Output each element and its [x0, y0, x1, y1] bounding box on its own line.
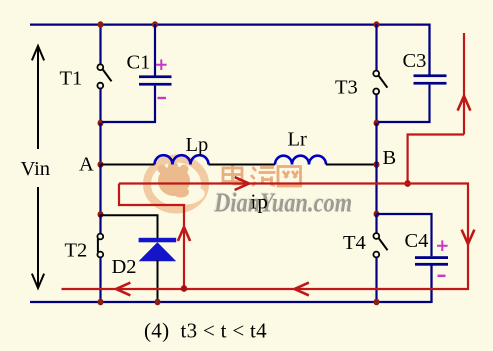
label A — [79, 153, 94, 175]
svg-text:A: A — [79, 153, 94, 175]
capacitor C1 — [139, 75, 172, 85]
inductor Lp — [155, 155, 209, 164]
junction top rail C1 — [152, 21, 158, 28]
C1 plus — [156, 59, 167, 70]
red junction dot right — [404, 180, 410, 187]
Vin down arrow — [32, 187, 44, 288]
wire C4 bottom lead — [430, 265, 432, 303]
svg-text:Vin: Vin — [21, 158, 51, 180]
wire T2 top — [99, 215, 101, 234]
junction T1-T2-C1 — [98, 120, 104, 127]
wire node A to T2 junction — [99, 165, 101, 215]
switch T1 — [97, 64, 111, 88]
svg-text:ip: ip — [251, 190, 269, 214]
watermark dianyuan.com text — [212, 185, 352, 217]
red arrow left bottom mid — [295, 283, 309, 296]
diode D2 triangle — [139, 242, 177, 261]
wire junction to node B — [375, 123, 377, 165]
wire T1 top — [99, 24, 101, 65]
junction T3-T4-C3 — [374, 120, 380, 127]
label D2 — [112, 256, 137, 278]
svg-text:D2: D2 — [112, 256, 137, 278]
svg-text:DianYuan.com: DianYuan.com — [213, 187, 352, 218]
label T4 — [343, 232, 366, 254]
label ip — [251, 190, 269, 214]
wire C3 bottom lead — [378, 85, 430, 122]
diode D2 cathode bar — [139, 238, 177, 243]
label T2 — [65, 239, 88, 261]
watermark logo ring — [147, 159, 205, 210]
label C1 — [127, 52, 151, 74]
red wire main loop — [62, 184, 469, 290]
wire T3 bottom — [375, 94, 377, 122]
svg-text:C4: C4 — [405, 230, 429, 252]
wire D2 bottom lead — [157, 260, 159, 302]
red wire jog to junction — [408, 135, 464, 184]
red wire D2 branch — [119, 184, 184, 289]
label Lp — [186, 134, 209, 156]
red arrow up D2 — [178, 227, 190, 241]
red arrow right ip — [235, 177, 249, 190]
junction T2 bottom rail — [98, 299, 104, 306]
svg-text:C1: C1 — [127, 52, 151, 74]
node A — [98, 161, 104, 168]
svg-text:Lr: Lr — [288, 129, 308, 151]
watermark char yuan — [251, 167, 276, 186]
label C3 — [403, 50, 427, 72]
wire T1 bottom — [99, 89, 101, 123]
top rail — [30, 23, 430, 25]
wire T4 top — [375, 214, 377, 233]
wire C3 top lead — [428, 24, 430, 76]
label T3 — [335, 77, 358, 99]
svg-text:T2: T2 — [65, 239, 88, 261]
red arrow up right — [458, 96, 471, 111]
svg-text:T3: T3 — [335, 77, 358, 99]
label Vin — [21, 158, 51, 180]
Vin up arrow — [32, 46, 44, 149]
svg-text:C3: C3 — [403, 50, 427, 72]
svg-text:(4) t3 < t < t4: (4) t3 < t < t4 — [144, 319, 267, 343]
junction D2 bottom rail — [155, 299, 161, 306]
C4 plus — [437, 240, 448, 251]
capacitor C3 — [414, 74, 447, 84]
svg-text:B: B — [383, 147, 397, 169]
label T1 — [60, 68, 83, 90]
watermark char wang — [278, 167, 301, 187]
C4 minus — [438, 275, 446, 277]
junction top rail T3 — [374, 21, 380, 28]
label B — [383, 147, 397, 169]
watermark char dian — [223, 164, 243, 184]
wire Lr to node B — [326, 164, 377, 166]
caption — [144, 319, 267, 343]
wire D2 top lead — [101, 215, 158, 238]
switch T3 — [373, 71, 387, 95]
junction T2-D2 — [98, 211, 104, 218]
junction T4 bottom rail — [374, 299, 380, 306]
svg-text:Lp: Lp — [186, 134, 209, 156]
red wire top right vertical — [463, 33, 465, 135]
label Lr — [288, 129, 308, 151]
switch T2 (closed) — [97, 234, 103, 258]
wire node A to Lp — [101, 164, 155, 166]
capacitor C4 — [415, 256, 448, 265]
C1 minus — [158, 97, 167, 99]
wire T4 bottom — [375, 257, 377, 302]
bottom rail — [30, 301, 432, 303]
wire C1 bottom lead — [102, 86, 155, 122]
label C4 — [405, 230, 429, 252]
wire node B to T4 junction — [375, 165, 377, 215]
wire Lp to Lr — [209, 164, 276, 166]
switch T4 — [373, 233, 387, 257]
svg-text:T4: T4 — [343, 232, 366, 254]
red arrow left bottom left — [116, 283, 130, 296]
wire T3 top — [375, 24, 377, 71]
red arrow down right — [462, 230, 475, 244]
node B — [374, 161, 380, 168]
red junction dot bottom — [181, 285, 187, 292]
wire C4 top lead — [377, 214, 432, 256]
svg-text:T1: T1 — [60, 68, 83, 90]
wire T2 bottom — [99, 257, 101, 302]
watermark logo blob — [158, 161, 207, 207]
junction T4-C4 — [374, 211, 380, 218]
wire junction to node A — [99, 123, 101, 165]
inductor Lr — [275, 156, 326, 165]
wire C1 top lead — [154, 24, 156, 76]
junction top rail T1 — [98, 21, 104, 28]
